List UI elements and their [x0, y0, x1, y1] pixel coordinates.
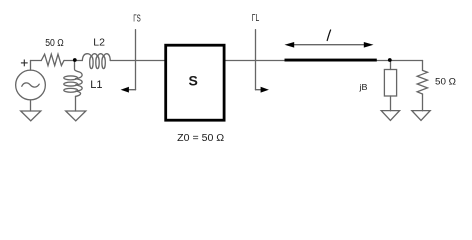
- wire jB box to ground: [390, 96, 392, 111]
- dimension arrowhead right: [364, 42, 374, 48]
- ground (below jB): [381, 111, 399, 121]
- reflection plane ΓL marker line: [255, 30, 257, 90]
- svg-text:50 Ω: 50 Ω: [435, 77, 456, 88]
- svg-text:L2: L2: [93, 37, 105, 49]
- svg-text:ΓL: ΓL: [252, 13, 260, 24]
- ground (below L1): [66, 111, 86, 121]
- two-port network box S: [166, 45, 224, 120]
- svg-text:S: S: [189, 73, 198, 89]
- svg-text:ΓS: ΓS: [133, 13, 141, 24]
- wire bar to node B: [377, 60, 390, 62]
- wire source top stub: [30, 61, 32, 71]
- resistor 50 Ω load (vertical zigzag): [417, 70, 427, 94]
- wire source bottom stub: [30, 100, 32, 111]
- wire source to resistor: [31, 60, 42, 62]
- ΓL arrow line: [256, 89, 263, 91]
- resistor 50 Ω (source resistor zigzag): [41, 54, 64, 65]
- dimension arrowhead left: [285, 42, 295, 48]
- susceptance element jB (open box): [384, 70, 396, 97]
- ΓL arrowhead: [261, 87, 269, 93]
- sine symbol inside source: [22, 83, 39, 87]
- wire node B to load corner: [390, 60, 423, 62]
- svg-text:50 Ω: 50 Ω: [45, 38, 64, 49]
- wire load corner down: [422, 61, 424, 71]
- label l (line length): [327, 30, 330, 41]
- transmission line (thick bar): [285, 59, 377, 62]
- svg-text:Z0 = 50 Ω: Z0 = 50 Ω: [177, 133, 225, 144]
- wire resistor to node A: [64, 60, 75, 62]
- svg-text:L1: L1: [90, 79, 102, 91]
- wire node A to L2: [75, 60, 83, 62]
- plus polarity sign of source: [21, 60, 28, 67]
- dimension line for l: [294, 44, 365, 46]
- wire node B down to jB box: [390, 61, 392, 70]
- ground (below source): [21, 111, 41, 121]
- junction node A dot: [73, 58, 77, 62]
- wire L2 to two-port box: [110, 60, 164, 62]
- ground (below load): [412, 111, 430, 121]
- ΓS arrowhead: [121, 87, 129, 93]
- wire L1 to ground: [75, 96, 77, 111]
- ΓS arrow line: [126, 89, 136, 91]
- inductor L2 (series coil): [82, 54, 91, 61]
- voltage source V1 (AC source circle): [16, 70, 46, 100]
- wire node A down to L1: [74, 61, 76, 67]
- wire box to ΓL plane: [226, 60, 285, 62]
- reflection plane ΓS marker line: [135, 30, 137, 90]
- inductor L1 (shunt coil): [75, 66, 83, 79]
- svg-text:jB: jB: [358, 82, 367, 92]
- wire load resistor to ground: [422, 94, 424, 111]
- junction node B dot: [388, 58, 392, 62]
